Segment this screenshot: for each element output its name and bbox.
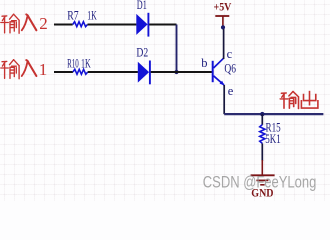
diode D2	[138, 61, 150, 85]
resistor R10	[73, 69, 88, 74]
wire R15 to ground	[261, 143, 263, 161]
junction dot below +5V	[221, 25, 225, 29]
svg-text:D1: D1	[137, 0, 147, 12]
wire input2 to R7	[54, 24, 73, 26]
wire R7 to D1	[88, 24, 137, 26]
wire junction to R15	[261, 114, 263, 125]
junction dot at D1/D2 wires	[174, 70, 178, 74]
label 输入2 (input 2)	[1, 14, 48, 33]
wire input1 to R10	[54, 71, 73, 73]
transistor Q6	[213, 58, 225, 85]
junction dot at R15 branch	[260, 112, 264, 116]
svg-text:e: e	[228, 84, 234, 98]
svg-text:b: b	[201, 56, 207, 70]
svg-text:1K: 1K	[81, 56, 91, 70]
wire D2 to transistor base	[151, 71, 212, 73]
svg-text:2: 2	[39, 14, 48, 33]
wire D1 to corner	[149, 24, 176, 26]
wire vertical branch D1 down	[176, 25, 178, 73]
svg-text:R10: R10	[67, 56, 79, 70]
svg-text:D2: D2	[136, 46, 148, 60]
resistor R7	[73, 22, 88, 27]
svg-text:5K1: 5K1	[265, 132, 281, 146]
resistor R15	[260, 125, 265, 144]
ground symbol GND	[251, 160, 275, 185]
svg-text:1: 1	[39, 60, 48, 79]
power +5V bar symbol	[215, 16, 229, 26]
svg-text:Q6: Q6	[224, 62, 236, 76]
svg-text:CSDN @FeeYLong: CSDN @FeeYLong	[203, 174, 316, 192]
diode D1	[136, 13, 148, 37]
svg-text:R7: R7	[67, 9, 78, 23]
svg-text:1K: 1K	[87, 9, 97, 23]
label 输入1 (input 1)	[1, 60, 48, 79]
wire +5V to collector	[223, 29, 225, 59]
svg-text:+5V: +5V	[214, 1, 233, 13]
wire R10 to D2	[88, 71, 138, 73]
svg-text:c: c	[227, 47, 233, 61]
label 输出 (output)	[280, 91, 318, 108]
wire emitter down	[223, 85, 225, 114]
wire output horizontal	[224, 113, 323, 115]
